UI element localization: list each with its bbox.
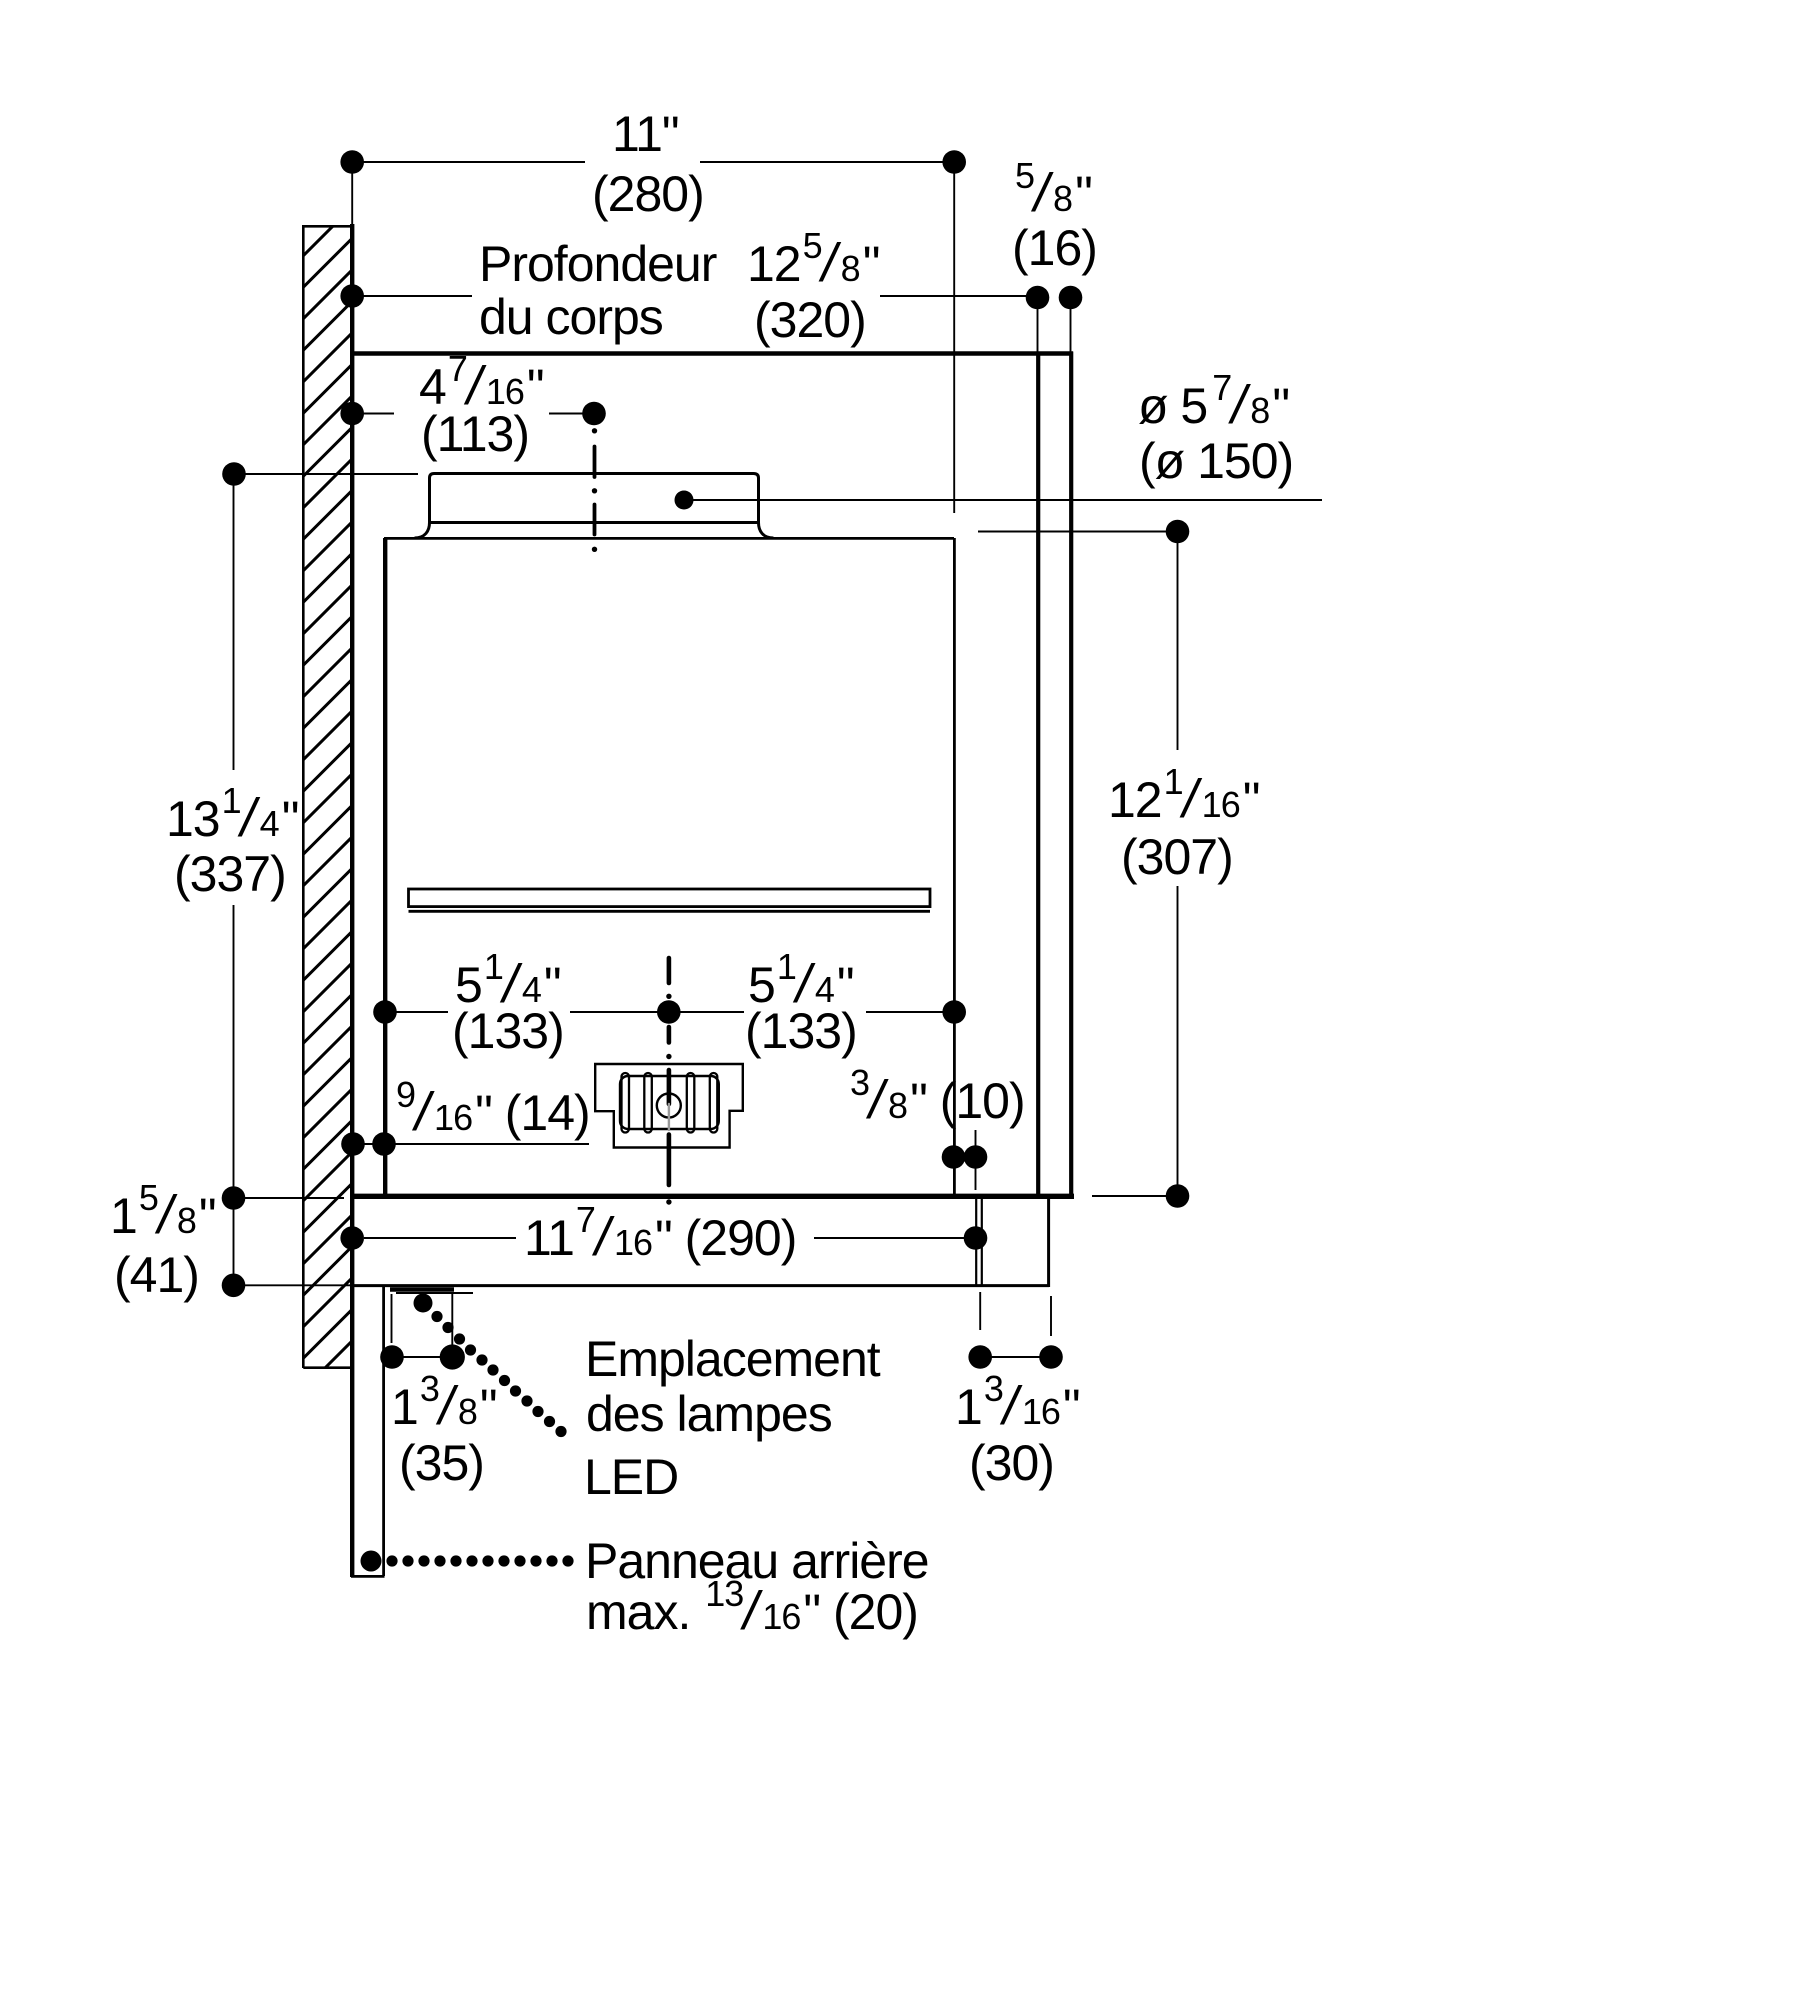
svg-text:du corps: du corps	[479, 289, 663, 345]
damper roller barrel	[620, 1076, 719, 1129]
wall right edge / back panel left edge	[350, 224, 354, 1577]
svg-text:(307): (307)	[1121, 829, 1233, 885]
svg-text:max. 13/16" (20): max. 13/16" (20)	[586, 1573, 918, 1641]
svg-text:(113): (113)	[421, 406, 529, 462]
dim 9/16 14	[341, 1074, 589, 1156]
cabinet right wall inner line	[1036, 352, 1040, 1197]
svg-text:(16): (16)	[1012, 220, 1097, 276]
svg-text:Profondeur: Profondeur	[479, 236, 717, 292]
svg-text:(35): (35)	[399, 1435, 484, 1491]
dim 3/8 10	[850, 1062, 1025, 1190]
svg-text:Emplacement: Emplacement	[585, 1331, 881, 1387]
damper roller ribs	[622, 1073, 718, 1133]
svg-text:11": 11"	[612, 106, 679, 162]
wall outline	[303, 226, 350, 1368]
centerline of collar (dash-dot)	[592, 428, 597, 552]
dim 1 3/16 30	[955, 1292, 1080, 1491]
grease filter bar	[409, 889, 931, 911]
dim 13 1/4 337	[166, 462, 418, 1210]
LED lamp	[390, 1287, 454, 1292]
dim 5 1/4 133 left and right	[373, 946, 966, 1059]
svg-text:15/8": 15/8"	[110, 1177, 216, 1245]
svg-text:117/16" (290): 117/16" (290)	[524, 1199, 796, 1267]
dim 4 7/16 113	[340, 348, 605, 462]
duct collar	[415, 474, 774, 539]
svg-text:(320): (320)	[754, 292, 866, 348]
damper center circle	[657, 1094, 681, 1118]
svg-text:(30): (30)	[969, 1435, 1054, 1491]
svg-text:(337): (337)	[174, 846, 286, 902]
svg-text:(133): (133)	[452, 1003, 564, 1059]
plate front double line	[976, 1199, 982, 1285]
svg-text:LED: LED	[584, 1449, 678, 1505]
dim 1 3/8 35	[380, 1294, 496, 1491]
dim profondeur du corps 12 5/8 320	[340, 155, 1097, 352]
wall (hatched)	[270, 129, 430, 1518]
svg-text:des lampes: des lampes	[586, 1386, 832, 1442]
damper mechanism outer bracket	[595, 1064, 743, 1148]
cabinet top line	[350, 351, 1073, 355]
panneau arriere leader	[361, 1533, 929, 1641]
back panel	[351, 1287, 385, 1576]
svg-text:3/8" (10): 3/8" (10)	[850, 1062, 1025, 1130]
dim 12 1/16 307	[978, 520, 1259, 1208]
svg-text:9/16" (14): 9/16" (14)	[396, 1074, 590, 1142]
LED leader dotted line	[414, 1294, 881, 1506]
svg-text:(ø 150): (ø 150)	[1139, 433, 1293, 489]
dim 11in 280	[340, 106, 966, 513]
cabinet right wall outer line	[1069, 352, 1073, 1197]
svg-text:13/8": 13/8"	[391, 1368, 497, 1436]
dim 11 7/16 290	[340, 1199, 987, 1267]
mounting plate bottom	[352, 1284, 1049, 1287]
dim diameter 5 7/8 150	[675, 367, 1323, 510]
svg-text:(133): (133)	[745, 1003, 857, 1059]
mounting plate right edge	[1047, 1197, 1050, 1287]
hood body outline	[384, 538, 954, 1196]
hood body bottom thick line	[350, 1194, 1074, 1199]
svg-text:(280): (280)	[592, 166, 704, 222]
centerline of damper (dash-dot)	[666, 958, 671, 1205]
svg-text:(41): (41)	[114, 1247, 199, 1303]
dim 1 5/8 41	[110, 1177, 350, 1303]
